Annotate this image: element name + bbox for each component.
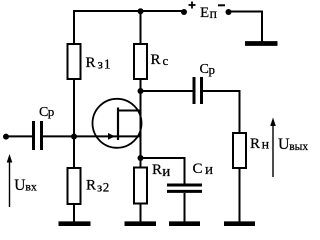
label Cp (output): [200, 62, 216, 77]
junction: top rail / Rc branch: [138, 8, 144, 14]
junction: drain node: [138, 88, 144, 94]
wire: input terminal to Cp(in): [6, 135, 32, 137]
svg-text:з1: з1: [98, 57, 112, 72]
svg-text:R: R: [86, 178, 96, 194]
svg-text:и: и: [162, 164, 170, 180]
svg-text:R: R: [250, 136, 260, 152]
transistor VT gate arrow: [108, 133, 115, 140]
resistor Rн: [233, 133, 246, 168]
wire: Rc bottom through drain node down to source node: [140, 79, 142, 168]
capacitor Cи: [167, 185, 202, 191]
svg-text:з2: з2: [97, 180, 110, 195]
svg-text:р: р: [209, 62, 216, 77]
power terminal + (dot): [181, 9, 187, 15]
wire: Rи to ground: [140, 204, 142, 223]
label Rc: [151, 52, 169, 68]
transistor VT channel bar: [117, 108, 119, 141]
ground (top right): [245, 41, 278, 46]
resistor Rи: [134, 168, 147, 204]
svg-text:р: р: [48, 104, 55, 119]
wire: Cи to ground: [184, 193, 186, 223]
label −: [218, 4, 225, 6]
wire: Cp(out) right and down to Rн: [203, 91, 240, 133]
label Rи: [152, 162, 170, 180]
label Rз2: [86, 178, 110, 195]
input terminal (dot): [3, 134, 9, 140]
label Uвых: [278, 136, 308, 153]
wire: top rail to Rc: [140, 11, 142, 44]
transistor VT (JFET) body circle: [93, 99, 142, 148]
wire: drain node to Cp(out): [141, 90, 194, 92]
resistor Rc: [134, 44, 147, 79]
wire: gate node down to Rз2: [73, 136, 75, 168]
wire: − terminal to top-right ground: [229, 12, 263, 43]
svg-text:C: C: [200, 62, 209, 77]
wire: rail corner down to Rз1: [73, 10, 75, 44]
label Cp (input): [39, 104, 54, 120]
ground (under Cи): [169, 221, 200, 226]
ground (under Rн): [224, 221, 255, 226]
wire: top supply rail from Rз1 branch to + terminal: [74, 10, 184, 12]
svg-text:вх: вх: [25, 180, 37, 194]
transistor VT drain lead: [117, 110, 141, 112]
wire: Rз2 to ground: [73, 204, 75, 223]
svg-text:U: U: [278, 136, 290, 153]
svg-text:R: R: [151, 52, 161, 68]
svg-text:U: U: [14, 177, 25, 194]
svg-text:c: c: [163, 53, 169, 68]
svg-text:E: E: [200, 5, 209, 21]
label +: [189, 2, 196, 9]
label Eп: [200, 5, 218, 22]
label Rз1: [86, 55, 112, 72]
wire: Cp(in) to gate node and on to gate: [43, 135, 118, 137]
capacitor Cp (input): [34, 121, 42, 150]
svg-text:п: п: [210, 7, 218, 22]
ground (under Rз2): [59, 221, 91, 226]
svg-text:R: R: [152, 162, 162, 178]
arrow Uвх: [7, 154, 13, 207]
svg-text:R: R: [86, 55, 96, 71]
junction: gate node: [71, 134, 77, 140]
wire: source node to Cи branch: [141, 158, 185, 184]
capacitor Cp (output): [194, 77, 202, 104]
power terminal − (dot): [226, 9, 232, 15]
resistor Rз2: [68, 168, 81, 204]
wire: Rз1 bottom to gate node: [73, 79, 75, 136]
label Cи: [193, 161, 214, 178]
resistor Rз1: [68, 44, 81, 79]
svg-text:и: и: [205, 162, 213, 178]
label Uвх: [14, 177, 37, 194]
transistor VT source lead: [118, 135, 141, 137]
svg-text:C: C: [193, 161, 203, 177]
ground (under Rи): [125, 221, 157, 226]
label Rн: [250, 136, 270, 153]
svg-text:вых: вых: [289, 141, 308, 153]
svg-text:н: н: [262, 138, 270, 153]
arrow Uвых: [270, 118, 276, 178]
junction: source node: [138, 155, 144, 161]
wire: Rн to ground: [239, 168, 241, 223]
